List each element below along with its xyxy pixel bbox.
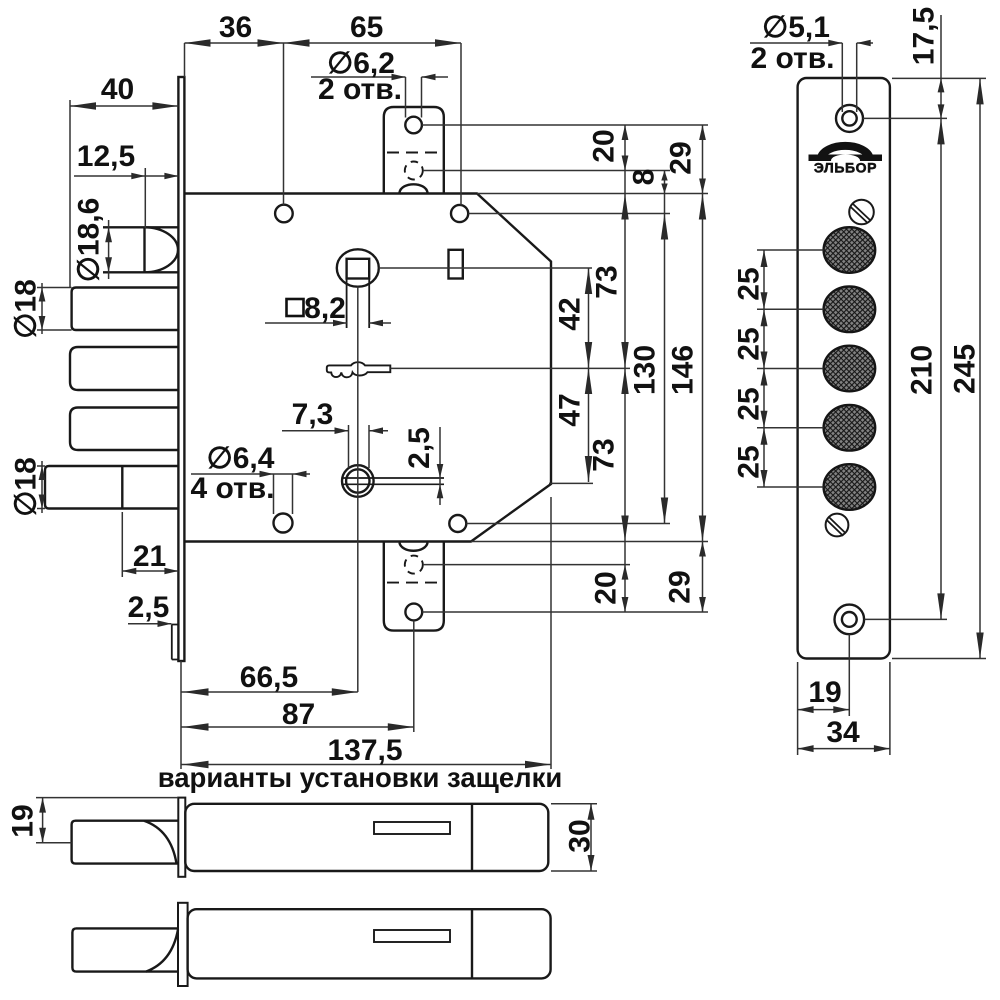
svg-text:2 отв.: 2 отв. bbox=[318, 73, 402, 106]
svg-text:47: 47 bbox=[554, 393, 587, 426]
svg-text:19: 19 bbox=[7, 804, 40, 837]
svg-text:∅18: ∅18 bbox=[10, 457, 43, 517]
svg-text:∅5,1: ∅5,1 bbox=[762, 11, 830, 44]
svg-text:20: 20 bbox=[590, 571, 623, 604]
svg-text:2 отв.: 2 отв. bbox=[750, 42, 834, 75]
svg-text:8,2: 8,2 bbox=[304, 292, 346, 325]
svg-text:36: 36 bbox=[219, 11, 252, 44]
svg-text:34: 34 bbox=[826, 716, 860, 749]
svg-text:варианты установки защелки: варианты установки защелки bbox=[158, 762, 563, 793]
svg-text:ЭЛЬБОР: ЭЛЬБОР bbox=[814, 160, 877, 176]
svg-text:21: 21 bbox=[133, 540, 166, 573]
svg-text:130: 130 bbox=[629, 345, 662, 395]
svg-text:25: 25 bbox=[733, 387, 766, 420]
svg-text:∅6,4: ∅6,4 bbox=[207, 442, 275, 475]
svg-text:66,5: 66,5 bbox=[240, 661, 298, 694]
svg-text:29: 29 bbox=[665, 141, 698, 174]
svg-text:65: 65 bbox=[350, 11, 383, 44]
svg-text:17,5: 17,5 bbox=[908, 7, 941, 65]
svg-text:2,5: 2,5 bbox=[403, 427, 436, 469]
svg-text:30: 30 bbox=[564, 819, 597, 852]
svg-text:25: 25 bbox=[733, 267, 766, 300]
svg-text:4 отв.: 4 отв. bbox=[190, 472, 274, 505]
svg-text:12,5: 12,5 bbox=[77, 140, 135, 173]
svg-text:∅18,6: ∅18,6 bbox=[73, 198, 106, 283]
svg-text:25: 25 bbox=[733, 327, 766, 360]
svg-text:73: 73 bbox=[588, 438, 621, 471]
svg-text:2,5: 2,5 bbox=[128, 591, 170, 624]
svg-text:25: 25 bbox=[733, 445, 766, 478]
svg-text:87: 87 bbox=[282, 698, 315, 731]
svg-text:73: 73 bbox=[591, 265, 624, 298]
svg-text:19: 19 bbox=[808, 676, 841, 709]
svg-text:7,3: 7,3 bbox=[292, 398, 334, 431]
svg-text:146: 146 bbox=[667, 345, 700, 395]
svg-text:245: 245 bbox=[949, 344, 982, 394]
svg-text:∅18: ∅18 bbox=[10, 279, 43, 339]
svg-text:8: 8 bbox=[628, 169, 661, 186]
svg-text:210: 210 bbox=[906, 345, 939, 395]
svg-text:40: 40 bbox=[101, 73, 134, 106]
svg-text:29: 29 bbox=[664, 570, 697, 603]
svg-text:42: 42 bbox=[554, 297, 587, 330]
svg-text:20: 20 bbox=[588, 129, 621, 162]
